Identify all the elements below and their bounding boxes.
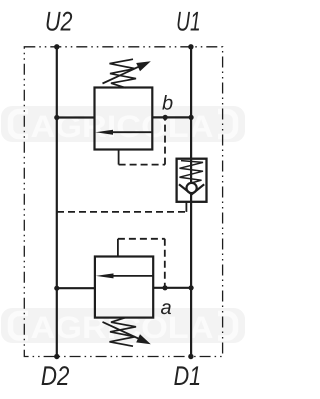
watermark row 1 (gray band, white knockout lettering)	[1, 106, 245, 144]
V1 pilot line horizontal (dashed)	[119, 164, 165, 166]
node U2	[54, 44, 59, 49]
CV1 ball	[187, 183, 197, 193]
CV1 spring	[180, 161, 204, 183]
node V1 right port junction on U1 line	[189, 115, 194, 120]
svg-text:a: a	[160, 297, 171, 319]
V2 pilot stub	[117, 239, 119, 257]
V2 pilot line horizontal (dashed)	[118, 238, 165, 240]
V2 spring	[110, 318, 137, 347]
V1 spring	[110, 59, 137, 88]
V1 internal flow arrow (points left)	[110, 131, 152, 133]
V1 adjustment arrow	[103, 65, 143, 83]
svg-text:U2: U2	[45, 7, 73, 37]
watermark row 2 (gray band, white knockout lettering)	[1, 308, 245, 345]
node V2 right port junction on U1 line	[189, 285, 194, 290]
V2 adjustment arrow	[103, 322, 143, 340]
node U1	[188, 44, 193, 49]
node V1 left port junction	[54, 115, 59, 120]
V1 pilot line vertical (dashed) to node b	[164, 119, 166, 165]
svg-text:U1: U1	[176, 7, 201, 37]
CV1 seat	[179, 184, 204, 194]
V1 pilot stub	[118, 150, 120, 165]
svg-text:D1: D1	[174, 361, 202, 391]
wire V2 right port to U1 line	[153, 287, 191, 289]
svg-text:D2: D2	[41, 361, 70, 391]
wire V1 left port	[57, 116, 95, 118]
CV1 pilot stub	[185, 202, 187, 212]
node a	[162, 285, 167, 290]
svg-text:b: b	[162, 93, 173, 115]
V2 internal flow arrow (points left)	[111, 275, 154, 277]
enclosure border (phantom dash-dot line)	[24, 47, 222, 357]
node D1	[188, 354, 193, 359]
node b	[163, 115, 168, 120]
node V2 left port junction	[54, 286, 59, 291]
relief valve V1 body (top)	[95, 88, 153, 150]
svg-text:AGRICOLA: AGRICOLA	[31, 109, 214, 144]
relief valve V2 body (bottom)	[95, 257, 153, 318]
wire U1-D1 vertical line	[190, 47, 192, 357]
wire U2-D2 vertical line	[56, 47, 58, 357]
wire V2 left port	[57, 287, 95, 289]
node D2	[54, 354, 59, 359]
V2 pilot line vertical (dashed) to node a	[164, 239, 166, 286]
pilot line from U2-D2 line to CV1 (dashed)	[57, 211, 186, 213]
wire V1 right port to U1 line	[152, 116, 191, 118]
check valve CV1 body	[177, 159, 207, 202]
